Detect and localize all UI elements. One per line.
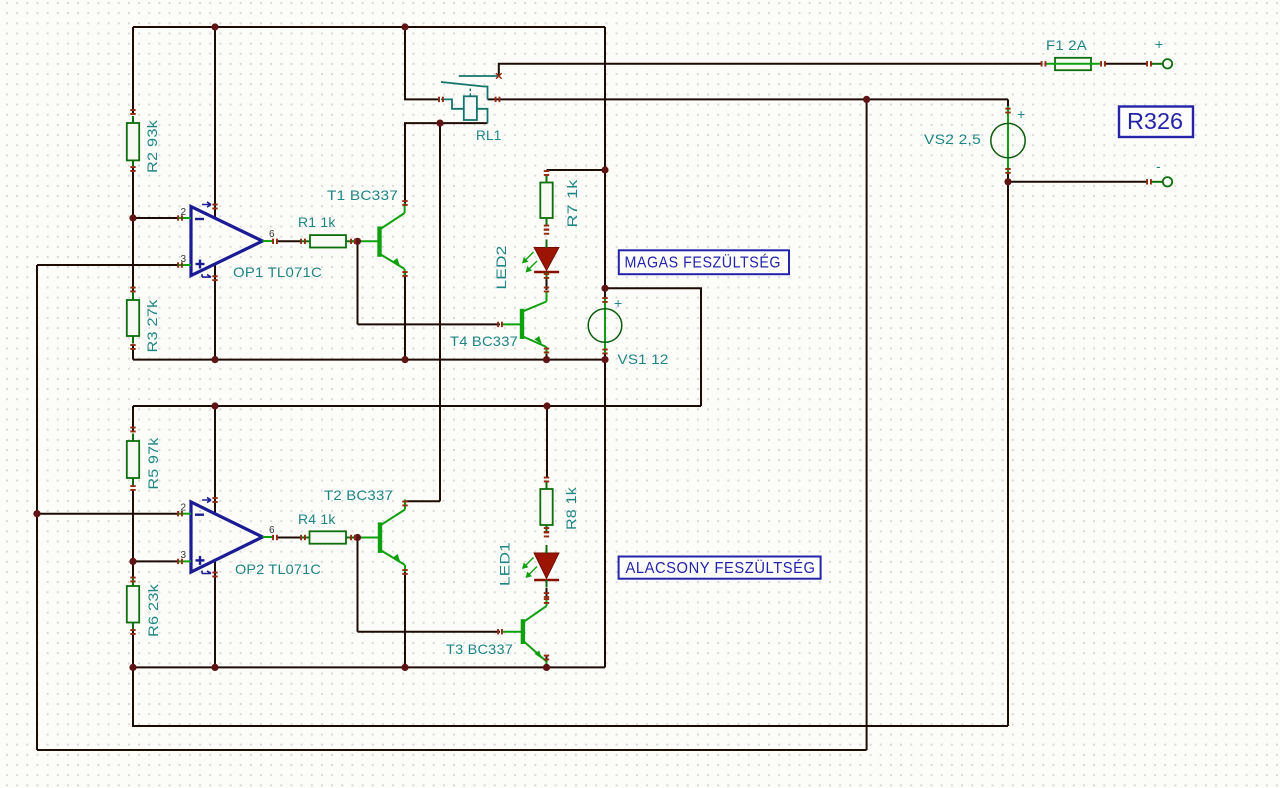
svg-text:R5 97k: R5 97k <box>145 437 161 490</box>
wire T4 emitter to GND rail <box>546 351 548 360</box>
svg-text:R8 1k: R8 1k <box>563 486 579 530</box>
resistor R4 <box>298 511 354 544</box>
resistor R1 <box>298 214 354 248</box>
op-amp OP1 <box>179 202 322 280</box>
wire lower GND to minus bus <box>133 667 1008 726</box>
wire minus bus vertical <box>1007 182 1009 726</box>
wire far-left sense vertical <box>36 265 38 750</box>
svg-text:R1 1k: R1 1k <box>298 214 336 230</box>
junction node B divider R5-R6 <box>129 558 136 565</box>
wire GND rail top section <box>133 359 605 361</box>
wire OP1 V- pin drop <box>214 264 216 360</box>
wire V+ top rail <box>133 26 605 28</box>
wire relay contact up to fuse line <box>499 64 1042 76</box>
transistor T1 <box>327 187 405 276</box>
resistor R8 <box>540 482 579 533</box>
svg-text:+: + <box>614 295 622 311</box>
junction OP2 V- / lower GND <box>211 664 218 671</box>
wire OP1 pin3 to far left <box>37 264 180 266</box>
LED LED2 <box>493 240 559 290</box>
junction lower rail / R8 <box>543 402 550 409</box>
svg-text:RL1: RL1 <box>476 127 502 143</box>
wire R5 bottom to node B <box>132 490 134 561</box>
svg-text:6: 6 <box>269 229 275 240</box>
wire R3 bottom to GND rail <box>132 345 134 360</box>
svg-text:R2 93k: R2 93k <box>144 119 160 173</box>
junction far-left / OP2 pin2 <box>33 510 40 517</box>
wire OP1 V+ pin drop <box>214 27 216 217</box>
wire T1 base node down <box>357 241 359 324</box>
svg-text:+: + <box>1155 36 1163 52</box>
svg-text:F1 2A: F1 2A <box>1046 37 1087 53</box>
label R326 <box>1119 107 1193 138</box>
wire to T4 base <box>358 323 501 325</box>
wire V+ left drop to R2 <box>132 27 134 114</box>
wire relay coil right to T1 collector <box>405 123 488 204</box>
transistor T3 <box>446 596 547 669</box>
resistor R5 <box>127 434 161 490</box>
svg-text:T4 BC337: T4 BC337 <box>450 333 518 349</box>
svg-text:T2 BC337: T2 BC337 <box>324 487 393 503</box>
svg-text:T1 BC337: T1 BC337 <box>327 187 398 203</box>
label MAGAS FESZULTSEG <box>619 250 789 274</box>
wire VS1 minus to rail <box>604 353 606 360</box>
junction R1 / T1 base / T4 base <box>354 238 361 245</box>
svg-text:T3 BC337: T3 BC337 <box>446 641 513 657</box>
junction R7 branch <box>601 166 608 173</box>
resistor R7 <box>540 175 580 228</box>
svg-text:OP1 TL071C: OP1 TL071C <box>233 264 322 280</box>
junction top rail / OP1 power <box>211 23 218 30</box>
junction VS2 minus <box>1004 178 1011 185</box>
wire OP2 V+ pin drop <box>214 406 216 513</box>
wire OP2 V- pin drop <box>214 560 216 667</box>
wire lower rail drop to R5 <box>132 406 134 431</box>
wire sense vertical right <box>866 99 868 750</box>
wire node B down to R6 <box>132 561 134 581</box>
wire T2 collector jog <box>405 501 440 503</box>
wire R2 bottom to node A <box>132 168 134 218</box>
svg-text:-: - <box>1156 158 1161 174</box>
wire lower V+ rail <box>133 405 701 407</box>
wire relay pole to right <box>488 98 1009 100</box>
svg-text:R326: R326 <box>1127 108 1183 134</box>
wire T2 base node down <box>357 538 359 632</box>
svg-text:R7 1k: R7 1k <box>564 178 580 227</box>
wire node B to OP2 pin3 <box>133 560 180 562</box>
wire T3 emitter to lower GND <box>546 656 548 667</box>
transistor T2 <box>324 487 405 572</box>
wire to T3 base <box>358 631 501 633</box>
wire R1 to T1 base node <box>352 240 358 242</box>
junction lower rail / OP2 power <box>211 402 218 409</box>
junction T2 emitter / lower GND <box>401 664 408 671</box>
wire LED1 to T3 collector <box>546 588 548 601</box>
svg-text:OP2 TL071C: OP2 TL071C <box>235 561 321 577</box>
transistor T4 <box>450 292 547 355</box>
svg-text:MAGAS FESZÜLTSÉG: MAGAS FESZÜLTSÉG <box>625 253 782 272</box>
svg-text:ALACSONY FESZÜLTSÉG: ALACSONY FESZÜLTSÉG <box>626 558 816 577</box>
svg-text:LED1: LED1 <box>497 542 513 586</box>
wire main right vertical upper <box>604 27 606 299</box>
wire lower GND rail <box>133 666 605 668</box>
wire main right vertical lower <box>604 360 606 668</box>
wire T2 emitter to lower GND <box>404 571 406 667</box>
junction R6 / lower GND corner <box>129 664 136 671</box>
junction top rail / relay feed <box>401 23 408 30</box>
wire T1 emitter to GND rail <box>404 273 406 360</box>
wire R7 branch <box>547 169 606 171</box>
svg-text:R6 23k: R6 23k <box>145 583 161 637</box>
svg-text:+: + <box>1017 106 1025 122</box>
svg-text:VS2 2,5: VS2 2,5 <box>924 131 981 147</box>
junction node A divider R2-R3 <box>129 214 136 221</box>
fuse F1 <box>1046 37 1100 70</box>
junction sense bus right <box>863 96 870 103</box>
svg-text:R3 27k: R3 27k <box>144 299 160 353</box>
label ALACSONY FESZULTSEG <box>619 557 821 579</box>
wire VS2 top jog <box>1007 99 1009 106</box>
resistor R2 <box>127 116 160 173</box>
resistor R6 <box>127 579 161 638</box>
junction VS1 plus <box>601 285 608 292</box>
wire R8 top drop <box>546 406 548 478</box>
wire minus terminal lead <box>1008 181 1147 183</box>
wire R6 bottom to lower GND <box>132 631 134 667</box>
junction relay coil bottom <box>436 120 443 127</box>
pin end marks (all) <box>130 61 1152 660</box>
LED LED1 <box>497 542 560 588</box>
resistor R3 <box>127 293 160 353</box>
wire top rail to relay coil left <box>405 27 440 99</box>
wire OP2 pin2 to far left <box>37 513 180 515</box>
svg-text:R4 1k: R4 1k <box>298 511 336 527</box>
wire bottom sense horizontal <box>37 749 867 751</box>
wire LED2 to T4 collector <box>546 272 548 290</box>
junction OP1 V- / rail <box>211 356 218 363</box>
wire relay node to T2 collector <box>439 123 441 501</box>
wire OP1 output to R1 <box>276 240 301 242</box>
wire VS1 plus jog right <box>605 288 701 406</box>
svg-text:6: 6 <box>269 525 275 536</box>
pin mark relay contact <box>496 73 502 79</box>
svg-text:LED2: LED2 <box>493 245 509 289</box>
junction T4 emitter / rail <box>543 356 550 363</box>
op-amp OP2 <box>179 497 321 577</box>
voltage source VS1 <box>588 295 668 367</box>
junction VS1 minus / rail <box>601 356 608 363</box>
wire OP2 output to R4 <box>276 537 301 539</box>
terminal minus <box>1151 158 1172 187</box>
junction T3 emitter / lower GND <box>543 664 550 671</box>
svg-text:VS1 12: VS1 12 <box>618 351 669 367</box>
junction R4 / T2 base / T3 base <box>354 534 361 541</box>
wire node A to OP1 pin2 <box>133 217 180 219</box>
terminal plus <box>1151 36 1172 69</box>
wire VS2 bottom stub <box>1007 174 1009 182</box>
voltage source VS2 <box>924 106 1025 174</box>
wire node A down to R3 <box>132 218 134 291</box>
wire fuse to plus terminal <box>1105 63 1147 65</box>
relay RL1 <box>441 76 502 143</box>
junction T1 emitter / rail <box>401 356 408 363</box>
wire R4 to T2 base node <box>352 537 358 539</box>
